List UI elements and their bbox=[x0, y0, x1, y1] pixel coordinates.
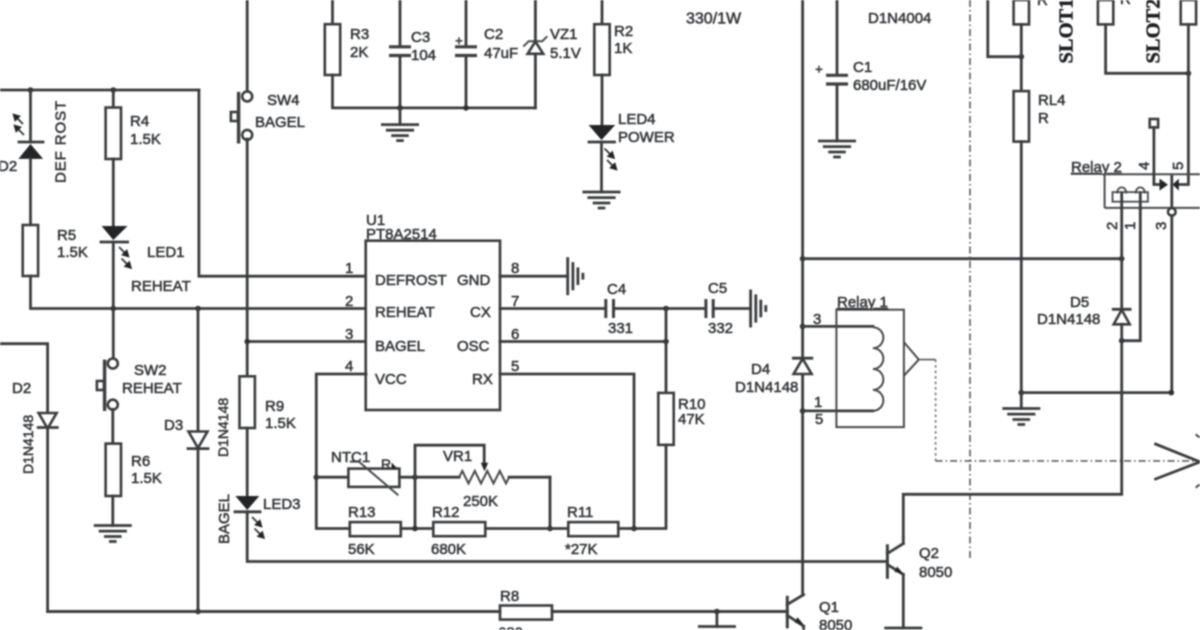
resistor R2 bbox=[594, 24, 609, 75]
svg-text:BAGEL: BAGEL bbox=[375, 338, 425, 355]
svg-text:NTC1: NTC1 bbox=[331, 449, 370, 466]
wire D5 to Q2 collector bbox=[903, 324, 1121, 537]
svg-text:331: 331 bbox=[608, 320, 633, 337]
diode D4 bbox=[793, 358, 811, 374]
svg-text:SLOT1: SLOT1 bbox=[1056, 0, 1078, 64]
zener VZ1 bbox=[523, 0, 547, 108]
node NTC row left junction bbox=[314, 474, 320, 480]
svg-text:DEFROST: DEFROST bbox=[375, 272, 447, 289]
svg-text:LED1: LED1 bbox=[147, 244, 185, 261]
svg-text:1: 1 bbox=[814, 394, 822, 411]
wire R5 to pin2 row bbox=[31, 276, 367, 309]
ground right rail bbox=[1004, 393, 1039, 425]
wire R8 row right to Q1 bbox=[552, 610, 787, 613]
node relay2 coil junction bbox=[1119, 256, 1125, 262]
svg-text:R5: R5 bbox=[57, 227, 76, 244]
svg-text:1: 1 bbox=[1122, 222, 1139, 230]
wire relay1 pin1 bbox=[803, 409, 873, 412]
wire slot2 left resistor down bbox=[1106, 24, 1189, 73]
LED LED3 bbox=[235, 496, 264, 538]
wire C2 down bbox=[465, 56, 468, 108]
switch SW4 bbox=[231, 91, 252, 143]
wire D3 to bottom rail bbox=[197, 449, 200, 612]
svg-text:1: 1 bbox=[345, 260, 353, 277]
svg-text:VZ1: VZ1 bbox=[550, 26, 578, 43]
svg-text:R12: R12 bbox=[432, 504, 460, 521]
wire relay1 contact link bbox=[919, 359, 936, 361]
capacitor C3 bbox=[389, 47, 411, 56]
capacitor C4 bbox=[606, 299, 614, 318]
resistor R5 bbox=[23, 225, 38, 276]
svg-text:D2: D2 bbox=[0, 158, 17, 175]
wire right gnd rail bbox=[1021, 391, 1171, 394]
svg-text:5: 5 bbox=[511, 358, 519, 375]
relay Relay1 box bbox=[836, 310, 904, 427]
resistor R slot2 right bbox=[1181, 0, 1196, 24]
capacitor C2 bbox=[455, 37, 477, 55]
node HV rail to relay wire 3 bbox=[800, 256, 806, 262]
wire C1 to ground bbox=[836, 85, 839, 142]
LED D2 (LED2 DEFROST) bbox=[14, 115, 44, 159]
svg-text:C4: C4 bbox=[607, 281, 626, 298]
relay2 common bar bbox=[1170, 177, 1173, 209]
relay1 coil bbox=[873, 327, 883, 411]
wire rail to relay2 coil bbox=[803, 257, 1122, 260]
svg-text:C5: C5 bbox=[708, 280, 727, 297]
svg-text:D5: D5 bbox=[1070, 294, 1089, 311]
node pin3 junction bbox=[244, 339, 250, 345]
diode D2 bbox=[38, 413, 57, 429]
wire R3 to gnd rail bbox=[333, 75, 536, 108]
resistor RL top slot1 bbox=[1014, 0, 1029, 24]
svg-text:SW4: SW4 bbox=[267, 92, 300, 109]
svg-text:1.5K: 1.5K bbox=[265, 415, 296, 432]
svg-text:VCC: VCC bbox=[375, 371, 407, 388]
svg-text:R3: R3 bbox=[350, 26, 369, 43]
svg-text:D4: D4 bbox=[751, 361, 770, 378]
wire LED2 to R5 bbox=[29, 159, 32, 225]
svg-text:5: 5 bbox=[815, 411, 823, 428]
wire RL4 to gnd rail bbox=[1020, 142, 1023, 393]
svg-text:REHEAT: REHEAT bbox=[131, 278, 191, 295]
resistor R13 bbox=[350, 522, 401, 536]
latch mechanism symbol bbox=[1156, 434, 1200, 488]
wire relay2 pin2 down bbox=[1120, 208, 1123, 309]
svg-text:R13: R13 bbox=[348, 504, 376, 521]
wire relay2 pin4 bbox=[1154, 127, 1160, 184]
svg-text:1K: 1K bbox=[614, 40, 632, 57]
svg-text:POWER: POWER bbox=[618, 129, 675, 146]
svg-text:R9: R9 bbox=[265, 398, 284, 415]
wire R6 to ground bbox=[111, 496, 114, 526]
svg-text:REHEAT: REHEAT bbox=[375, 304, 435, 321]
svg-text:D3: D3 bbox=[164, 417, 183, 434]
relay2 pin4 terminal square bbox=[1150, 119, 1158, 127]
svg-text:D1N4148: D1N4148 bbox=[20, 415, 36, 474]
svg-text:R: R bbox=[381, 456, 391, 472]
switch SW2 bbox=[97, 309, 118, 412]
node LED2 top junction bbox=[28, 87, 34, 93]
svg-text:1.5K: 1.5K bbox=[131, 470, 162, 487]
wire slot1 resistor to RL4 bbox=[1020, 24, 1023, 91]
ground R6 bbox=[95, 526, 130, 542]
wire main HV rail bbox=[801, 0, 804, 595]
wire D2 branch left bbox=[0, 344, 48, 413]
svg-text:Q2: Q2 bbox=[919, 545, 939, 562]
capacitor C5 bbox=[706, 299, 713, 318]
resistor RL4 bbox=[1014, 91, 1029, 142]
svg-text:680K: 680K bbox=[431, 541, 466, 558]
svg-text:RL4: RL4 bbox=[1038, 92, 1066, 109]
resistor R6 bbox=[106, 444, 121, 496]
relay2 coil bbox=[1113, 187, 1148, 208]
svg-text:C3: C3 bbox=[411, 29, 430, 46]
node VR1 R12 junction bbox=[547, 526, 553, 532]
wire C3 top bbox=[399, 0, 402, 46]
svg-text:C2: C2 bbox=[484, 26, 503, 43]
ground C3 rail bbox=[382, 108, 417, 141]
ground LED4 bbox=[584, 192, 619, 208]
ground C5 rotated bbox=[751, 291, 766, 326]
wire pin3 stub bbox=[247, 340, 366, 343]
wire relay1 pin3 bbox=[803, 325, 873, 328]
resistor R8 bbox=[500, 606, 552, 620]
wire C3 down bbox=[399, 56, 402, 108]
svg-text:2: 2 bbox=[345, 293, 353, 310]
thermistor NTC1 bbox=[348, 462, 399, 496]
boundary dash-dot vertical bbox=[969, 0, 971, 558]
wire C4 to C5 bbox=[615, 307, 705, 310]
wire relay2 pin3 down bbox=[1170, 216, 1173, 393]
svg-text:LED4: LED4 bbox=[618, 111, 656, 128]
svg-text:C1: C1 bbox=[853, 59, 872, 76]
transistor Q1 bbox=[787, 595, 804, 630]
wire R8 row left bbox=[48, 610, 500, 613]
diode D3 bbox=[188, 432, 208, 449]
wire R4 to LED1 bbox=[112, 159, 115, 226]
node R13 R12 junction bbox=[412, 526, 418, 532]
node R8 row stub junction bbox=[714, 609, 720, 615]
svg-text:680: 680 bbox=[498, 625, 523, 630]
svg-text:8: 8 bbox=[511, 260, 519, 277]
svg-text:D2: D2 bbox=[12, 380, 31, 397]
svg-text:250K: 250K bbox=[463, 493, 498, 510]
wire pin1 vertical from y90 bbox=[199, 90, 366, 276]
wire C1 top bbox=[836, 0, 839, 74]
svg-text:BAGEL: BAGEL bbox=[255, 114, 305, 131]
ground pin8 rotated bbox=[568, 259, 583, 294]
node relay1 pin3 junction bbox=[800, 324, 806, 330]
capacitor C1 bbox=[816, 66, 849, 84]
relay2 pin4 contact arrow bbox=[1160, 179, 1169, 191]
wire R13 to R12 bbox=[401, 527, 434, 530]
wire slot1 bypass loop bbox=[988, 0, 1022, 57]
svg-text:BAGEL: BAGEL bbox=[216, 494, 233, 544]
svg-text:D1N4004: D1N4004 bbox=[868, 10, 931, 27]
wire pin6 OSC stub bbox=[500, 340, 666, 343]
svg-text:47uF: 47uF bbox=[484, 45, 518, 62]
wire R11 right bbox=[618, 527, 634, 530]
svg-text:CX: CX bbox=[470, 304, 491, 321]
wire top-left rail y90 bbox=[0, 89, 199, 92]
node OSC junction bbox=[663, 339, 669, 345]
svg-text:D1N4148: D1N4148 bbox=[215, 398, 231, 457]
resistor R11 bbox=[568, 522, 618, 536]
node bottom rail D3 junction bbox=[195, 609, 201, 615]
svg-text:332: 332 bbox=[708, 320, 733, 337]
svg-text:8050: 8050 bbox=[919, 564, 952, 581]
svg-text:3: 3 bbox=[345, 326, 353, 343]
wire relay2 pin1 down bbox=[1122, 208, 1141, 341]
node D5 anode junction bbox=[1119, 338, 1125, 344]
svg-text:R4: R4 bbox=[130, 113, 149, 130]
node slot1 junction bbox=[1019, 54, 1025, 60]
svg-text:2K: 2K bbox=[350, 44, 368, 61]
potentiometer VR1 bbox=[415, 463, 550, 484]
relay1 contact triangle bbox=[904, 342, 919, 376]
wire VR1 right to R12 row bbox=[549, 477, 552, 528]
node C2 gnd junction bbox=[463, 105, 469, 111]
resistor R slot2 left bbox=[1098, 0, 1113, 24]
wire SW2 to R6 bbox=[111, 409, 114, 443]
wire LED1 to pin2 row bbox=[112, 242, 115, 309]
node gnd rail right junction bbox=[1169, 390, 1175, 396]
wire pin5 RX stub bbox=[500, 374, 634, 529]
LED LED4 bbox=[589, 125, 617, 170]
wire LED2 anode bbox=[29, 90, 32, 142]
node relay1 pin1 junction bbox=[800, 408, 806, 414]
svg-text:R: R bbox=[1038, 110, 1049, 127]
resistor R10 bbox=[658, 393, 673, 445]
svg-text:SW2: SW2 bbox=[134, 362, 167, 379]
node slot2 junction bbox=[1186, 71, 1192, 77]
node C3 gnd junction bbox=[397, 105, 403, 111]
svg-text:56K: 56K bbox=[348, 541, 375, 558]
svg-text:RX: RX bbox=[472, 371, 493, 388]
svg-text:47K: 47K bbox=[678, 411, 705, 428]
node pin2 row D3 junction bbox=[195, 306, 201, 312]
node C4 C5 junction bbox=[663, 306, 669, 312]
resistor R4 bbox=[106, 108, 121, 160]
svg-text:Relay 1: Relay 1 bbox=[837, 294, 888, 311]
svg-text:R8: R8 bbox=[500, 588, 519, 605]
wire slot2 right resistor down to relay2 bbox=[1179, 24, 1189, 184]
wire D2 to bottom rail bbox=[48, 428, 788, 612]
ground stub clipped bbox=[699, 612, 734, 630]
node pin5 R11 junction bbox=[631, 526, 637, 532]
wire LED4 to ground bbox=[600, 142, 603, 192]
svg-text:LED3: LED3 bbox=[263, 496, 301, 513]
wire R4 top bbox=[112, 90, 115, 108]
svg-text:R11: R11 bbox=[567, 504, 593, 521]
wire R9 to LED3 bbox=[246, 428, 249, 496]
wire pin7 CX stub bbox=[500, 307, 605, 310]
wire link dash-dot horizontal bbox=[936, 460, 1196, 462]
resistor R3 bbox=[325, 24, 340, 75]
wire NTC row left bbox=[316, 476, 348, 479]
ground C1 bbox=[819, 141, 854, 157]
relay2 pin5 contact arrow bbox=[1173, 179, 1179, 191]
svg-text:3: 3 bbox=[1153, 222, 1170, 230]
svg-text:3: 3 bbox=[813, 311, 821, 328]
resistor R12 bbox=[433, 522, 485, 536]
wire R2 to LED4 bbox=[601, 75, 604, 125]
svg-text:R2: R2 bbox=[614, 23, 633, 40]
svg-text:1.5K: 1.5K bbox=[57, 244, 88, 261]
svg-text:*27K: *27K bbox=[565, 541, 598, 558]
wire R10 to R11 row bbox=[631, 445, 666, 529]
wire VR1 wiper loop bbox=[415, 445, 484, 528]
LED LED1 bbox=[101, 226, 131, 268]
relay2 pin3 circle bbox=[1168, 208, 1176, 216]
svg-text:1.5K: 1.5K bbox=[130, 131, 161, 148]
IC U1 box bbox=[366, 241, 500, 410]
svg-text:VR1: VR1 bbox=[443, 448, 472, 465]
relay Relay2 box bbox=[1105, 174, 1200, 208]
wire link dotted vertical bbox=[935, 360, 937, 461]
wire R12 to R11 bbox=[485, 527, 568, 530]
svg-text:Q1: Q1 bbox=[819, 599, 839, 616]
wire C2 top bbox=[465, 0, 468, 46]
svg-text:R6: R6 bbox=[131, 453, 150, 470]
svg-text:R: R bbox=[1037, 0, 1048, 9]
transistor Q2 bbox=[887, 537, 903, 628]
svg-text:8050: 8050 bbox=[819, 617, 852, 630]
svg-text:5.1V: 5.1V bbox=[550, 45, 581, 62]
ground Q2 clipped bbox=[886, 628, 921, 630]
svg-text:5: 5 bbox=[1170, 162, 1187, 170]
svg-text:4: 4 bbox=[345, 358, 353, 375]
svg-text:OSC: OSC bbox=[457, 338, 490, 355]
wire pin4 VCC to NTC column bbox=[316, 374, 366, 529]
resistor R9 bbox=[240, 376, 255, 428]
wire SW4 to pin3 row and R9 bbox=[246, 139, 249, 376]
node gnd rail left junction bbox=[1019, 390, 1025, 396]
wire D3 vertical upper bbox=[197, 309, 200, 432]
svg-text:PT8A2514: PT8A2514 bbox=[366, 226, 437, 243]
wire LED3 to mid rail bbox=[247, 512, 887, 562]
svg-text:DEF ROST: DEF ROST bbox=[53, 100, 70, 183]
svg-text:680uF/16V: 680uF/16V bbox=[853, 77, 926, 94]
svg-text:GND: GND bbox=[457, 272, 491, 289]
label NTC R arrow bbox=[381, 456, 397, 472]
svg-text:330/1W: 330/1W bbox=[686, 11, 742, 28]
wire R2 top bbox=[601, 0, 604, 24]
wire C4C5 junction down to R10 bbox=[665, 309, 668, 393]
svg-text:D1N4148: D1N4148 bbox=[1037, 311, 1100, 328]
svg-text:2: 2 bbox=[1104, 222, 1121, 230]
wire SW4 top bbox=[246, 0, 249, 92]
diode D5 bbox=[1113, 309, 1130, 324]
svg-text:4: 4 bbox=[1136, 162, 1153, 170]
wire R3 top bbox=[331, 0, 334, 24]
svg-text:104: 104 bbox=[411, 47, 436, 64]
node LED1 row junction bbox=[111, 306, 117, 312]
svg-text:R: R bbox=[1120, 0, 1131, 8]
wire pin8 GND stub bbox=[500, 275, 568, 278]
svg-text:D1N4148: D1N4148 bbox=[735, 379, 798, 396]
svg-text:SLOT2: SLOT2 bbox=[1143, 0, 1165, 64]
node VR column NTC junction bbox=[412, 474, 418, 480]
wire C5 to ground bbox=[714, 307, 750, 310]
wire NTC right to VR column bbox=[399, 476, 415, 479]
svg-text:REHEAT: REHEAT bbox=[122, 380, 182, 397]
node R4 top junction bbox=[111, 87, 117, 93]
